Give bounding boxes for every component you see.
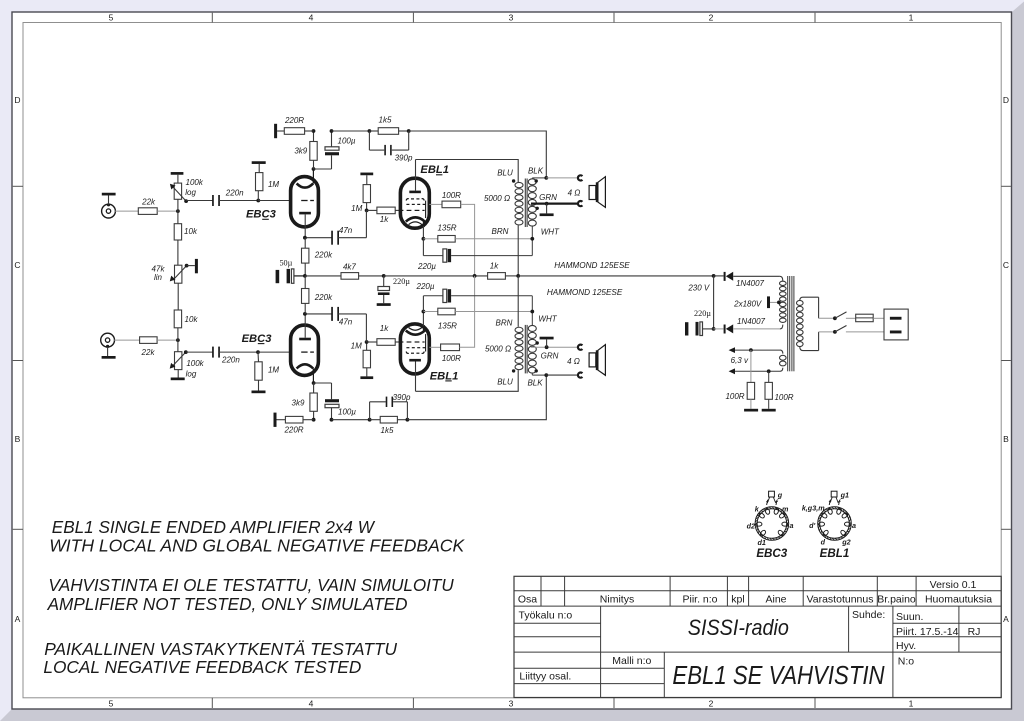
- svg-text:SISSI-radio: SISSI-radio: [688, 615, 789, 640]
- label BLK (ch1): [528, 167, 544, 176]
- resistor 220R (ch1): [284, 116, 305, 134]
- socket diagram EBL1 base: [818, 491, 852, 540]
- svg-text:50µ: 50µ: [279, 258, 292, 267]
- V4 control grid dashes: [400, 341, 424, 343]
- svg-text:Suhde:: Suhde:: [852, 609, 885, 621]
- wire 47k pot to ch2 10k: [177, 283, 179, 310]
- label 5000 Ohm (ch2): [485, 344, 511, 353]
- capacitor 50u with terminal (supply): [276, 258, 305, 283]
- svg-text:390p: 390p: [395, 154, 413, 163]
- svg-text:220k: 220k: [314, 293, 333, 302]
- svg-text:10k: 10k: [184, 227, 198, 236]
- wire BLK to speaker + (ch1): [546, 177, 577, 179]
- title block right labels: [852, 609, 980, 667]
- capacitor 220n (ch2): [212, 347, 240, 365]
- mains plug X1: [884, 309, 908, 340]
- resistor 1M grid leak EBL1 (ch1): [351, 175, 370, 213]
- svg-text:m: m: [782, 504, 789, 513]
- svg-text:3: 3: [509, 699, 514, 709]
- speaker SP2 (ch2): [589, 345, 605, 376]
- wire primary to switch top: [819, 317, 835, 319]
- svg-text:Hyv.: Hyv.: [896, 640, 916, 652]
- svg-text:Versio 0.1: Versio 0.1: [930, 579, 977, 591]
- node: GRN ground dot (ch1): [545, 202, 549, 206]
- node: rail dot at 100u (ch1): [330, 129, 334, 133]
- wire primary to switch bottom: [819, 331, 835, 333]
- svg-text:4 Ω: 4 Ω: [568, 188, 581, 197]
- node: rail dot at 3k9 (ch1): [312, 129, 316, 133]
- svg-text:EBL1 SE VAHVISTIN: EBL1 SE VAHVISTIN: [672, 662, 885, 690]
- capacitor 220u PSU with terminal: [685, 309, 714, 336]
- label WHT (ch2): [538, 314, 557, 323]
- svg-text:5000 Ω: 5000 Ω: [484, 194, 510, 203]
- svg-text:d1: d1: [758, 538, 766, 547]
- TR1 core: [788, 276, 794, 371]
- label 230 V: [687, 283, 710, 292]
- V2 screen grid dashes (to 100R): [406, 203, 425, 205]
- resistor 22k (ch2): [140, 337, 158, 357]
- socket EBL1 pin labels: [802, 491, 856, 547]
- wire V2 anode to transformer BLU (ch1): [416, 160, 519, 183]
- V4 anode bar and bottom lead: [409, 359, 421, 391]
- transformer TR1 HV winding 2x180V: [780, 276, 787, 329]
- resistor 100R humdinger right: [765, 371, 794, 409]
- svg-text:d': d': [809, 521, 815, 530]
- svg-text:Työkalu n:o: Työkalu n:o: [519, 610, 573, 622]
- V2 cathode lead down (ch1): [422, 226, 424, 239]
- input jack J1 (channel 1): [102, 195, 116, 218]
- wire T2 primary to supply rail (ch2): [517, 276, 519, 327]
- svg-text:Br.paino: Br.paino: [877, 593, 916, 605]
- V2 diode plates row: [406, 199, 425, 218]
- node: V2 cathode dot (ch1): [422, 237, 426, 241]
- resistor 22k (ch1): [138, 197, 157, 214]
- wire pot wiper to 220n (ch1 grid row): [186, 200, 213, 202]
- resistor 1M grid leak (ch2): [255, 352, 280, 390]
- note: LOCAL NEGATIVE FEEDBACK TESTED: [43, 657, 361, 677]
- capacitor 220u cathode feedback (ch2): [416, 282, 533, 312]
- resistor 220k anode load (ch2): [302, 276, 334, 314]
- terminal bar 2x180V: [767, 296, 770, 308]
- note: WITH LOCAL AND GLOBAL NEGATIVE FEEDBACK: [49, 536, 465, 556]
- svg-text:AMPLIFIER NOT TESTED, ONLY SIM: AMPLIFIER NOT TESTED, ONLY SIMULATED: [47, 594, 408, 614]
- capacitor 390p (ch1): [369, 131, 413, 163]
- wire 220R to 3k9 node: [305, 130, 314, 132]
- resistor 1k5 feedback (ch1): [378, 116, 398, 135]
- svg-text:lin: lin: [154, 273, 163, 282]
- svg-text:BRN: BRN: [496, 318, 513, 327]
- node: heater dot bottom: [767, 369, 771, 373]
- node: EBL1 grid node dot (ch2): [365, 340, 369, 344]
- node: V1 anode junction dot (ch1): [303, 236, 307, 240]
- TR1 mains primary winding: [797, 297, 819, 350]
- wire 100R to supply rail (ch2): [460, 276, 475, 347]
- ground at GRN (ch1): [540, 204, 554, 216]
- svg-text:220R: 220R: [284, 116, 304, 125]
- svg-text:4: 4: [309, 13, 314, 23]
- svg-text:Huomautuksia: Huomautuksia: [925, 593, 992, 605]
- svg-text:EBC3: EBC3: [242, 333, 273, 345]
- tube EBL1 V4 envelope (ch2): [400, 324, 429, 374]
- svg-text:Nimitys: Nimitys: [600, 593, 634, 605]
- wire 22k to volume pot node: [157, 210, 178, 212]
- tube EBL1 V2 envelope (ch1): [400, 178, 429, 228]
- potentiometer 100k log (ch1): [170, 178, 204, 203]
- wire 3k9 to bottom rail: [313, 411, 315, 419]
- svg-text:log: log: [186, 370, 197, 379]
- resistor 220R (ch2): [283, 416, 303, 434]
- wire fuse to plug: [873, 317, 884, 319]
- label 2x180V: [733, 299, 762, 308]
- wire switch to fuse: [846, 317, 856, 319]
- transformer T2 primary winding (ch2): [515, 327, 523, 369]
- svg-text:D: D: [14, 95, 20, 105]
- svg-text:EBL1: EBL1: [820, 547, 850, 560]
- chassis terminal above 100k pot: [171, 172, 184, 175]
- node: heater dot top: [749, 348, 753, 352]
- svg-text:D: D: [1003, 95, 1009, 105]
- label 4 Ohm (ch1): [568, 188, 581, 197]
- svg-text:100R: 100R: [442, 354, 461, 363]
- V4 diode plates row: [406, 334, 425, 353]
- svg-text:100k: 100k: [186, 359, 204, 368]
- node: 135R/WHT dot (ch1): [530, 237, 534, 241]
- resistor 4k7 (supply): [341, 262, 359, 279]
- svg-text:VAHVISTINTA EI OLE TESTATTU, V: VAHVISTINTA EI OLE TESTATTU, VAIN SIMULO…: [48, 575, 454, 595]
- label EBC3 (socket): [756, 547, 787, 560]
- node: rectifier output dot 230V: [712, 274, 716, 278]
- svg-text:PAIKALLINEN VASTAKYTKENTÄ TEST: PAIKALLINEN VASTAKYTKENTÄ TESTATTU: [44, 639, 397, 659]
- node: EBC3 grid junction dot (ch2): [256, 350, 260, 354]
- svg-text:GRN: GRN: [539, 193, 557, 202]
- svg-text:C: C: [14, 260, 20, 270]
- note: EBL1 SINGLE ENDED AMPLIFIER 2x4 W: [52, 517, 375, 537]
- title block header labels: [518, 579, 992, 605]
- wire T1 primary BRN to supply rail (ch1): [517, 225, 519, 276]
- speaker SP1 (ch1): [589, 177, 605, 208]
- transformer T1 primary winding (ch1): [515, 182, 523, 225]
- wire 22k to node (ch2): [157, 339, 178, 341]
- T1 secondary winding (ch1): [528, 179, 536, 226]
- svg-text:GRN: GRN: [541, 351, 559, 360]
- wire J1 to R 22k: [115, 210, 138, 212]
- svg-text:135R: 135R: [437, 224, 456, 233]
- label EBC3 (V1): [246, 209, 277, 221]
- chassis terminal above 1M (ch1): [252, 161, 266, 164]
- wire rail 100u to 1k5 section: [332, 130, 370, 132]
- svg-text:a: a: [790, 521, 794, 530]
- svg-text:kpl: kpl: [731, 593, 744, 605]
- svg-text:22k: 22k: [141, 348, 156, 357]
- T2 primary polarity dot BLU: [512, 369, 515, 372]
- T2 secondary winding (ch2): [528, 325, 536, 373]
- title block left labels: [519, 610, 652, 683]
- heater wire bottom with arrow: [729, 368, 780, 374]
- svg-text:220R: 220R: [283, 425, 303, 434]
- svg-text:47n: 47n: [339, 318, 353, 327]
- T1 primary polarity dot BLU: [512, 179, 515, 182]
- capacitor 47n coupling (ch1): [305, 210, 366, 244]
- potentiometer 47k lin (balance): [152, 264, 195, 284]
- T1 secondary lower polarity dot (ch1): [536, 207, 539, 210]
- svg-text:1: 1: [909, 699, 914, 709]
- wire V2 screen to 100R (ch1): [429, 203, 442, 205]
- node: rail dot at 3k9 (ch2): [312, 418, 316, 422]
- V3 anode bar and lead: [299, 314, 311, 340]
- svg-text:EBC3: EBC3: [756, 547, 787, 560]
- svg-text:220n: 220n: [221, 355, 240, 364]
- svg-text:220µ: 220µ: [393, 277, 410, 286]
- svg-text:Osa: Osa: [518, 593, 537, 605]
- svg-text:4k7: 4k7: [343, 262, 356, 271]
- label 4 Ohm (ch2): [567, 357, 580, 366]
- resistor 3k9 (ch2): [292, 383, 318, 411]
- wire WHT vertical (ch2): [531, 296, 533, 325]
- label 1N4007 (D2): [737, 317, 766, 326]
- capacitor 220u filter to ground: [377, 276, 411, 306]
- svg-text:1N4007: 1N4007: [736, 279, 765, 288]
- wire rail 220u to 1k: [384, 275, 488, 277]
- label EBL1 (V4): [430, 370, 459, 382]
- svg-text:Piir. n:o: Piir. n:o: [682, 593, 717, 605]
- svg-text:k,g3,m: k,g3,m: [802, 504, 825, 513]
- resistor 1M grid leak (ch1): [256, 164, 280, 201]
- T1 GRN tap wire to speaker (ch1): [531, 202, 577, 204]
- resistor 1k5 feedback (ch2): [380, 416, 397, 435]
- svg-text:Malli n:o: Malli n:o: [612, 655, 651, 667]
- svg-text:d: d: [821, 537, 826, 546]
- svg-text:Piirt. 17.5.-14: Piirt. 17.5.-14: [896, 626, 959, 638]
- svg-text:100µ: 100µ: [338, 407, 356, 416]
- svg-text:100R: 100R: [442, 191, 461, 200]
- wire terminal to 220R (ch2): [277, 419, 286, 421]
- svg-text:BLU: BLU: [497, 377, 513, 386]
- wire feedback rail to speaker junction (ch1): [409, 131, 547, 178]
- wire WHT vertical (ch1): [531, 227, 533, 256]
- switch S1a: [833, 312, 847, 320]
- svg-text:230 V: 230 V: [687, 283, 710, 292]
- svg-text:2: 2: [709, 13, 714, 23]
- T2 core: [525, 325, 527, 374]
- wire 1k5 right stub: [399, 130, 409, 132]
- svg-text:WITH LOCAL AND GLOBAL NEGATIVE: WITH LOCAL AND GLOBAL NEGATIVE FEEDBACK: [49, 536, 465, 556]
- svg-text:LOCAL NEGATIVE FEEDBACK TESTED: LOCAL NEGATIVE FEEDBACK TESTED: [43, 657, 361, 677]
- node: V4 cathode dot (ch2): [422, 310, 426, 314]
- node: V3 cathode bias junction dot: [312, 381, 316, 385]
- V2 anode bar and top lead: [409, 160, 421, 194]
- tube EBC3 V1 envelope (ch1): [291, 177, 319, 227]
- V4 cathode lead up (ch2): [422, 312, 424, 327]
- speaker SP1 terminals (ch1): [578, 175, 582, 206]
- potentiometer 100k log (ch2): [170, 350, 205, 378]
- label 5000 Ohm (ch1): [484, 194, 510, 203]
- svg-text:BLK: BLK: [528, 167, 544, 176]
- svg-text:3k9: 3k9: [294, 146, 307, 155]
- svg-text:135R: 135R: [438, 321, 457, 330]
- label BLU (ch1): [497, 168, 513, 177]
- node: J2/pot junction dot (ch2): [176, 338, 180, 342]
- speaker SP2 terminals (ch2): [578, 345, 582, 378]
- svg-text:4: 4: [309, 699, 314, 709]
- svg-text:220µ: 220µ: [416, 282, 435, 291]
- svg-text:220µ: 220µ: [417, 262, 436, 271]
- label GRN (ch2): [541, 351, 559, 360]
- resistor 135R cathode (ch1): [423, 224, 532, 243]
- resistor 220k anode load (ch1): [302, 238, 334, 276]
- svg-text:HAMMOND 125ESE: HAMMOND 125ESE: [547, 288, 623, 297]
- diode 1N4007 D1: [714, 272, 780, 281]
- wire V4 screen to 100R (ch2): [429, 346, 440, 348]
- svg-text:5: 5: [109, 13, 114, 23]
- svg-text:Suun.: Suun.: [896, 611, 923, 623]
- ground below 100k pot (ch2): [171, 370, 185, 381]
- svg-text:B: B: [1003, 434, 1009, 444]
- V4 cathode arc: [406, 325, 425, 335]
- chassis terminal above 1M (EBL1 ch1): [360, 173, 373, 176]
- node: rail dot at screen feeds: [473, 274, 477, 278]
- T2 secondary polarity dot BLK: [535, 369, 538, 372]
- wire rectifier minus branch: [713, 276, 715, 329]
- label 1N4007 (D1): [736, 279, 765, 288]
- node: dot at 220u PSU: [712, 327, 716, 331]
- node: V3 anode junction dot (ch2): [303, 312, 307, 316]
- switch S1b: [833, 326, 847, 334]
- svg-text:3k9: 3k9: [292, 398, 305, 407]
- svg-text:1k5: 1k5: [381, 426, 394, 435]
- wire terminal to pot 100k: [177, 175, 179, 183]
- resistor 1k grid stopper (ch1): [367, 207, 401, 224]
- TR1 HV centre tap: [770, 301, 781, 305]
- wire V4 anode to transformer BLU (ch2): [416, 370, 519, 391]
- note: PAIKALLINEN VASTAKYTKENTA TESTATTU: [44, 639, 397, 659]
- label EBL1 (V2): [420, 164, 449, 176]
- V3 cathode arc and bottom lead: [297, 364, 314, 383]
- svg-text:Varastotunnus: Varastotunnus: [807, 593, 874, 605]
- socket EBC3 pin labels: [747, 491, 794, 548]
- wire rail to rectifier (230V): [518, 275, 713, 277]
- svg-text:100R: 100R: [725, 392, 744, 401]
- socket diagram EBC3 base: [755, 491, 789, 540]
- node: rail dot right of 1k5 (ch2): [406, 418, 410, 422]
- wire 1k to primary node: [505, 275, 518, 277]
- wire 3k9 to top rail: [313, 131, 315, 142]
- svg-text:1k5: 1k5: [379, 116, 392, 125]
- wire 220n to grid node: [219, 200, 258, 202]
- svg-text:1k: 1k: [380, 215, 389, 224]
- wire 4k7 to 220u node: [359, 275, 384, 277]
- wire pot wiper to 220n (ch2 grid row): [186, 351, 213, 353]
- resistor 100R humdinger left: [725, 350, 754, 409]
- svg-text:a: a: [852, 521, 856, 530]
- chassis terminal above J1: [102, 193, 116, 196]
- svg-text:6,3 v: 6,3 v: [731, 356, 749, 365]
- title: SISSI-radio: [688, 615, 789, 640]
- resistor 10k (ch1): [174, 199, 198, 240]
- svg-text:3: 3: [509, 13, 514, 23]
- title block grid: [514, 576, 1001, 697]
- svg-text:EBL1 SINGLE ENDED AMPLIFIER 2x: EBL1 SINGLE ENDED AMPLIFIER 2x4 W: [52, 517, 375, 537]
- T1 secondary polarity dot BLK: [535, 179, 538, 182]
- svg-text:N:o: N:o: [898, 655, 915, 667]
- svg-text:B: B: [15, 434, 21, 444]
- svg-text:WHT: WHT: [541, 228, 560, 237]
- wire feedback rail to speaker junction (ch2): [407, 375, 546, 420]
- V2 control grid dashes: [400, 209, 424, 211]
- svg-text:22k: 22k: [141, 197, 156, 206]
- svg-text:1N4007: 1N4007: [737, 317, 766, 326]
- label WHT (ch1): [541, 228, 560, 237]
- svg-text:BLK: BLK: [527, 378, 543, 387]
- label BLU (ch2): [497, 377, 513, 386]
- node: BLK junction dot (ch1): [544, 176, 548, 180]
- resistor 100R screen (ch1): [442, 191, 461, 208]
- wire 100R to supply rail (ch1): [461, 204, 475, 276]
- svg-text:1M: 1M: [268, 365, 279, 374]
- wire 1k5 left stub: [369, 130, 378, 132]
- ground below 100R left: [744, 409, 758, 412]
- node: rail dot at 100u (ch2): [330, 418, 334, 422]
- svg-text:100µ: 100µ: [338, 137, 356, 146]
- node: BLK junction dot (ch2): [544, 373, 548, 377]
- capacitor 100u cathode bypass (ch2): [325, 383, 356, 420]
- capacitor 220n (ch1): [212, 188, 244, 206]
- wire cathode node to 100u branch (ch2): [314, 382, 332, 384]
- svg-text:WHT: WHT: [538, 314, 557, 323]
- svg-text:100k: 100k: [186, 178, 204, 187]
- wire switch to plug bottom: [846, 331, 884, 333]
- resistor 1M grid leak EBL1 (ch2): [351, 342, 371, 377]
- V1 cathode arc and top lead: [297, 169, 314, 188]
- label EBC3 (V3): [242, 333, 273, 345]
- wire rail to 4k7: [305, 275, 341, 277]
- tube EBC3 V3 envelope (ch2): [291, 325, 319, 375]
- svg-text:A: A: [15, 614, 21, 624]
- node: rail dot left of 1k5: [368, 129, 372, 133]
- capacitor 100u cathode bypass (ch1): [325, 131, 356, 169]
- terminal bar feedback rail left end (ch2): [274, 413, 277, 427]
- ground at GRN (ch2): [540, 337, 554, 348]
- ground below J2: [102, 356, 116, 359]
- svg-text:1M: 1M: [351, 204, 362, 213]
- svg-text:1M: 1M: [268, 180, 279, 189]
- V1 anode bar and lead: [299, 212, 311, 238]
- wire J2 to 22k (ch2): [114, 339, 139, 341]
- label HAMMOND 125ESE (ch1): [554, 261, 630, 270]
- T1 core: [525, 179, 527, 228]
- label BRN (ch1): [492, 227, 509, 236]
- svg-text:220n: 220n: [225, 188, 244, 197]
- resistor 10k (ch2): [174, 310, 198, 352]
- svg-text:Liittyy osal.: Liittyy osal.: [519, 671, 571, 683]
- V2 cathode arc: [406, 217, 425, 227]
- wire cathode node to 100u branch: [314, 168, 332, 170]
- svg-text:Aine: Aine: [765, 593, 786, 605]
- svg-text:47n: 47n: [339, 226, 353, 235]
- svg-text:4 Ω: 4 Ω: [567, 357, 580, 366]
- node: EBC3 grid junction dot (ch1): [256, 199, 260, 203]
- resistor 3k9 (ch1): [294, 142, 317, 170]
- svg-text:BRN: BRN: [492, 227, 509, 236]
- svg-text:2x180V: 2x180V: [733, 299, 762, 308]
- T2 GRN tap wire to speaker (ch2): [531, 346, 577, 348]
- ground below 100R right: [762, 409, 776, 412]
- note: VAHVISTINTA EI OLE TESTATTU, VAIN SIMULOITU: [48, 575, 454, 595]
- input jack J2 (channel 2): [101, 333, 115, 356]
- node: V1 cathode bias junction dot: [312, 167, 316, 171]
- label EBL1 (socket): [820, 547, 850, 560]
- svg-text:1: 1: [909, 13, 914, 23]
- terminal bar feedback rail left end (ch1): [274, 124, 277, 138]
